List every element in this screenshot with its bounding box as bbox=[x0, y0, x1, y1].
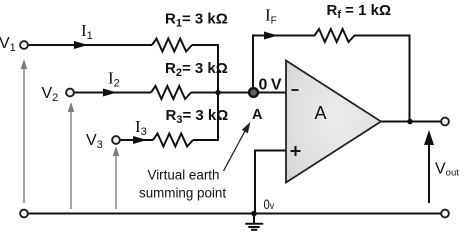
bottom rail 0v bbox=[29, 213, 441, 215]
junction output feedback bbox=[407, 119, 413, 125]
svg-text:R1= 3 kΩ: R1= 3 kΩ bbox=[165, 10, 228, 29]
wire Rf to output drop bbox=[354, 35, 411, 37]
terminal bottom left bbox=[20, 210, 28, 218]
annotation leader arrow bbox=[224, 122, 251, 171]
current arrow I3 bbox=[133, 136, 147, 144]
terminal V1 bbox=[20, 41, 28, 49]
svg-text:IF: IF bbox=[265, 6, 277, 27]
wire V1 to R1 bbox=[29, 44, 153, 46]
svg-text:0 V: 0 V bbox=[259, 76, 282, 93]
svg-text:I1: I1 bbox=[81, 21, 93, 42]
resistor R3 bbox=[153, 134, 193, 147]
svg-text:I3: I3 bbox=[135, 117, 147, 138]
terminal Vout top bbox=[441, 118, 449, 126]
wire node to inverting input bbox=[253, 92, 287, 94]
svg-text:Vout: Vout bbox=[435, 161, 459, 179]
svg-text:Rf = 1 kΩ: Rf = 1 kΩ bbox=[327, 2, 392, 21]
junction R1/R2 bbox=[215, 90, 220, 95]
svg-text:A: A bbox=[252, 107, 263, 123]
arrow Vout bbox=[424, 130, 434, 203]
resistor R2 bbox=[151, 86, 191, 99]
resistor R1 bbox=[152, 39, 192, 52]
voltage arrow V1 bbox=[21, 59, 28, 203]
svg-text:V3: V3 bbox=[86, 132, 103, 151]
wire feedback left riser bbox=[252, 36, 254, 93]
svg-text:summing point: summing point bbox=[139, 185, 226, 200]
svg-text:I2: I2 bbox=[108, 69, 120, 90]
wire V2 to R2 bbox=[75, 92, 152, 94]
wire R3 to junction bbox=[193, 93, 218, 141]
terminal V3 bbox=[112, 136, 120, 144]
wire feedback top bbox=[252, 35, 315, 37]
summing node A bbox=[249, 88, 258, 97]
terminal bottom right bbox=[441, 210, 449, 218]
svg-text:0v: 0v bbox=[264, 197, 275, 212]
wire R2 to node bbox=[191, 92, 249, 94]
current arrow I1 bbox=[74, 41, 88, 49]
voltage arrow V3 bbox=[113, 146, 120, 209]
voltage arrow V2 bbox=[68, 102, 75, 209]
wire R1 to junction bbox=[192, 45, 218, 93]
op-amp A body bbox=[286, 61, 381, 183]
op-amp inverting pin - bbox=[292, 89, 299, 91]
current arrow I2 bbox=[103, 89, 117, 97]
svg-text:Virtual earth: Virtual earth bbox=[148, 168, 220, 183]
wire feedback right drop bbox=[409, 35, 411, 122]
junction ground bbox=[251, 211, 257, 217]
terminal V2 bbox=[66, 89, 74, 97]
svg-text:R2= 3 kΩ: R2= 3 kΩ bbox=[165, 60, 228, 79]
current arrow IF bbox=[264, 32, 278, 40]
wire non-inverting input bbox=[255, 151, 286, 214]
wire output bbox=[381, 121, 441, 123]
svg-text:A: A bbox=[315, 103, 327, 123]
resistor Rf bbox=[315, 29, 355, 42]
svg-text:V2: V2 bbox=[42, 85, 59, 104]
wire V3 to R3 bbox=[121, 139, 154, 141]
svg-text:V1: V1 bbox=[0, 35, 16, 54]
op-amp non-inverting pin + bbox=[291, 146, 301, 156]
ground bbox=[245, 214, 263, 230]
